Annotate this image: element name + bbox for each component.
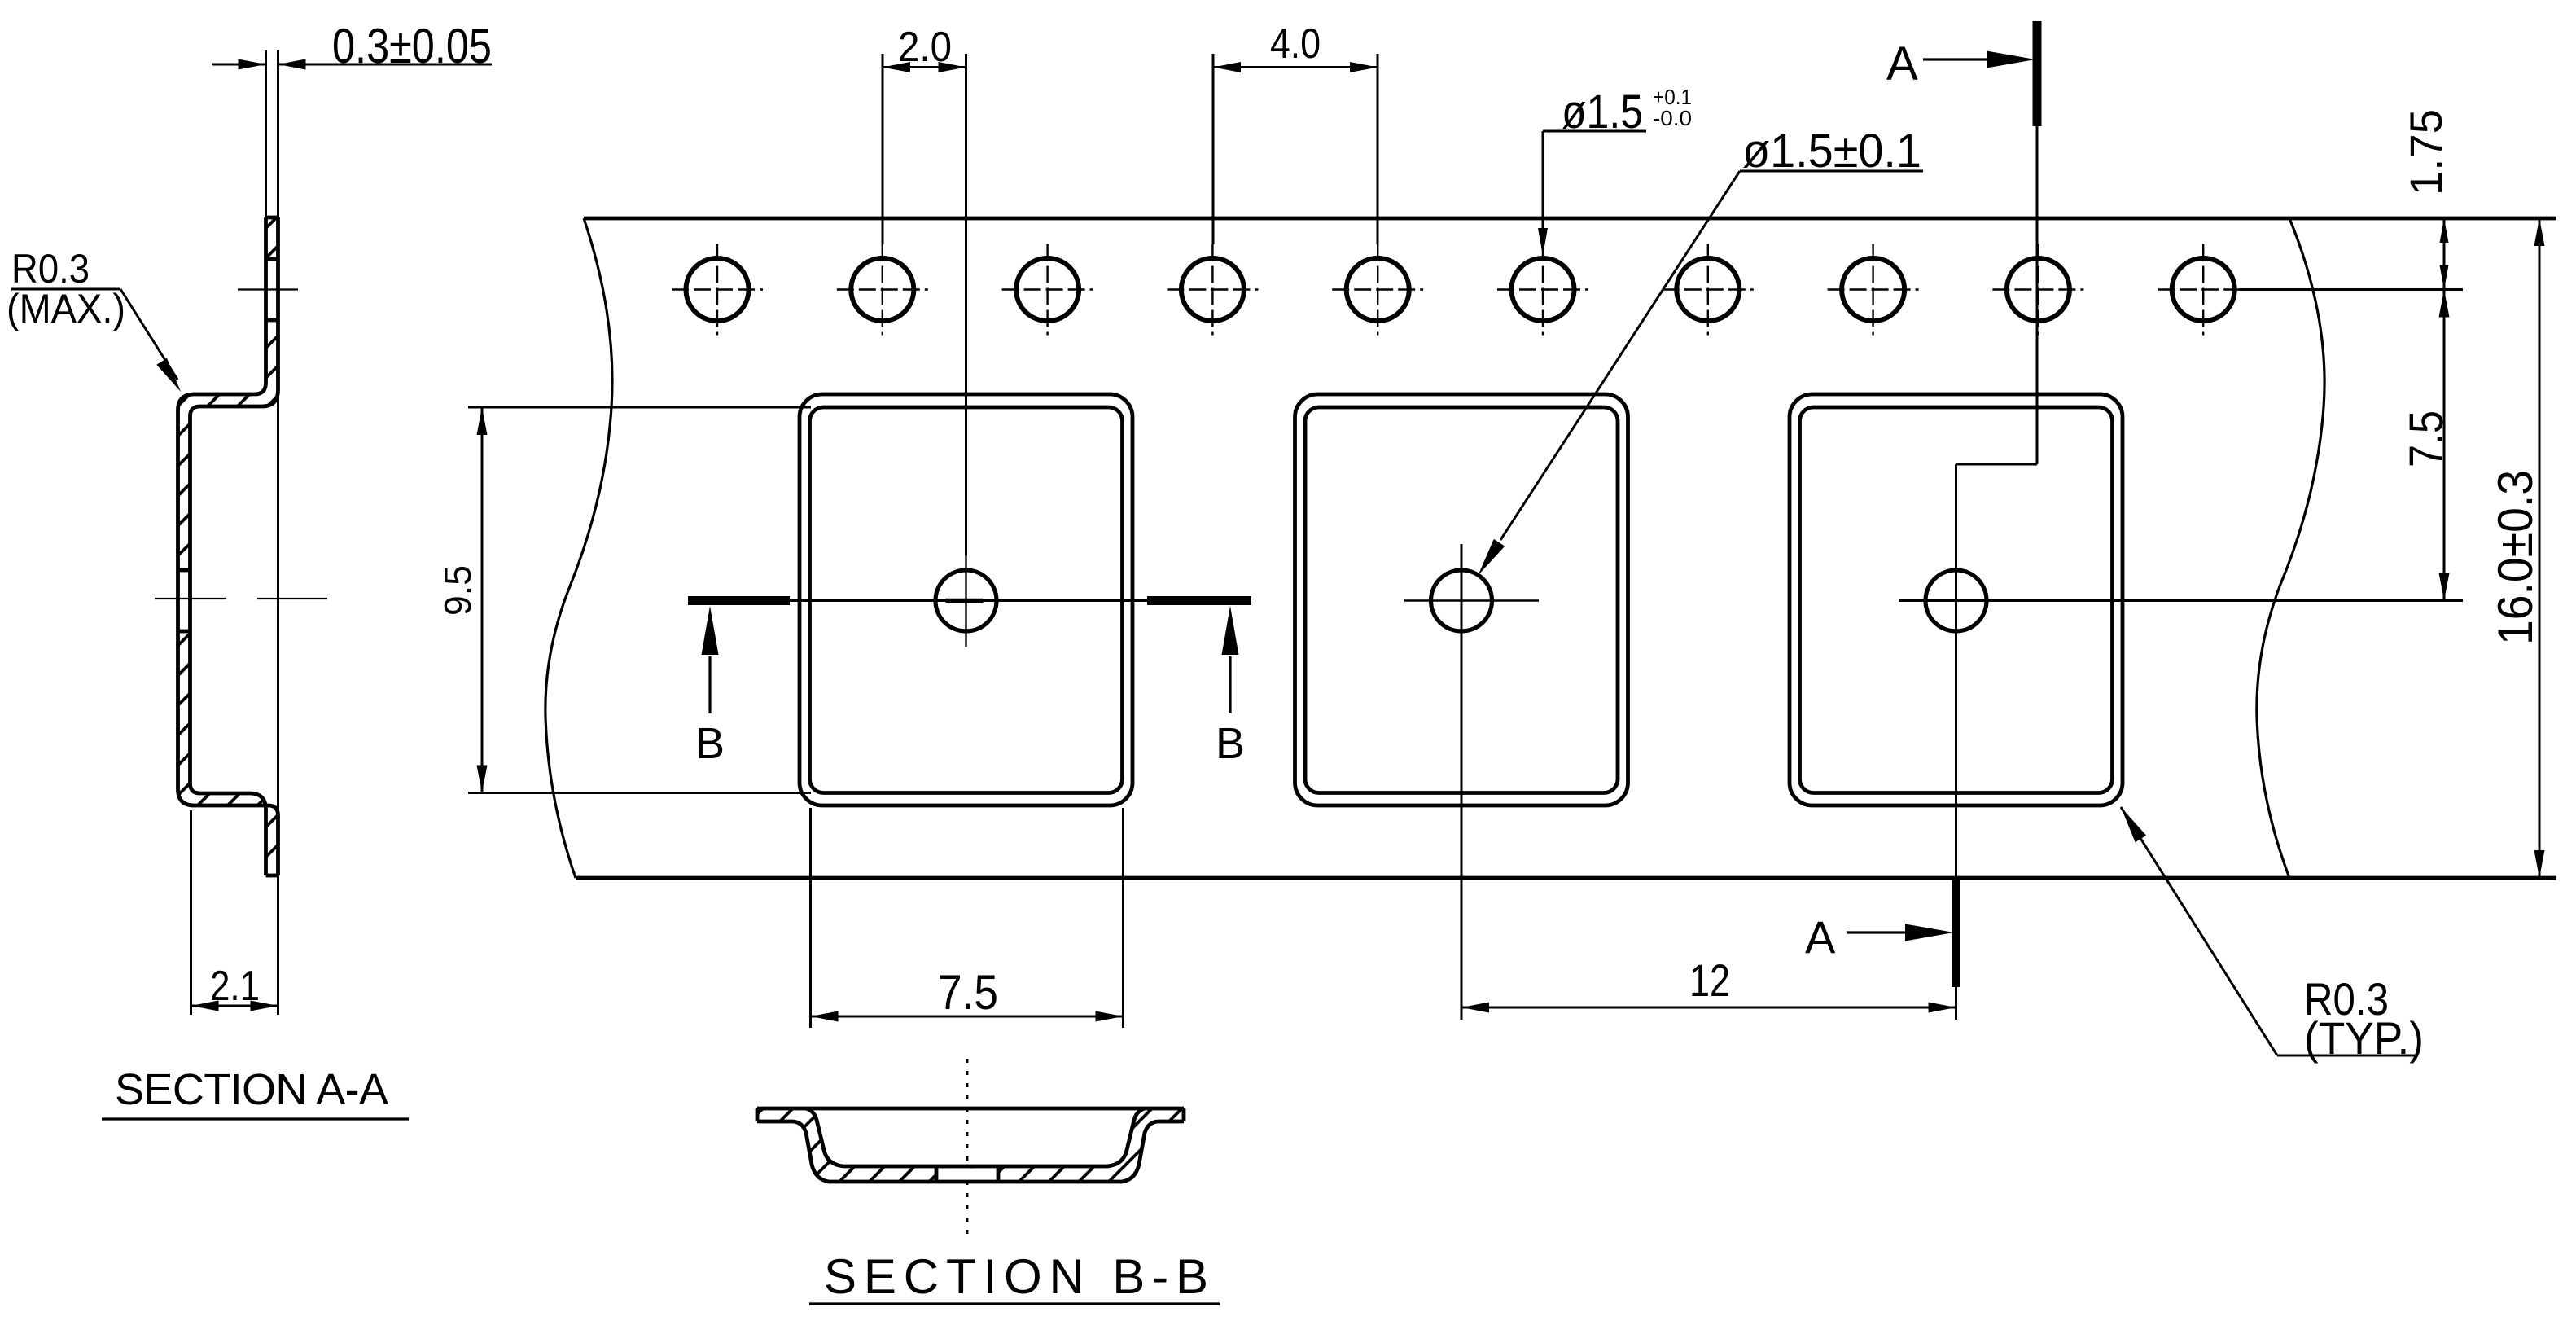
- dim 4.0 extension line right: [1377, 54, 1379, 244]
- dim 4.0 extension line left: [1212, 54, 1215, 244]
- section arrow B left: [708, 656, 711, 713]
- dim 0.3 extension left: [265, 50, 267, 217]
- dim 12 extension left (pocket2 centerline): [1461, 544, 1463, 1020]
- section A-A cut line lower thin: [1955, 464, 1957, 880]
- pocket 3 row line: [1899, 599, 2463, 602]
- sprocket hole 6: [1512, 258, 1575, 321]
- svg-text:16.0±0.3: 16.0±0.3: [2488, 470, 2543, 645]
- section A-A bottom end cap: [266, 874, 278, 878]
- section A-A cut line jog: [1956, 463, 2038, 466]
- section A-A cut line top bold: [2033, 21, 2042, 126]
- section A-A cut line upper thin: [2036, 126, 2039, 464]
- dim 7.5 line: [811, 1016, 1124, 1018]
- label R0.3 TYP leader: [2121, 807, 2277, 1055]
- section arrow A top: [1923, 58, 1987, 60]
- dim 16.0 extension top: [2326, 217, 2556, 220]
- section B-B centerline: [966, 1059, 969, 1235]
- dim 7.5 extension right: [1122, 808, 1124, 1028]
- section A-A top end cap: [266, 216, 278, 220]
- section B-B cut line thin middle: [790, 599, 1147, 602]
- sprocket hole 10: [2172, 258, 2235, 321]
- sprocket hole 2: [851, 258, 913, 321]
- sprocket hole 9: [2007, 258, 2070, 321]
- label R0.3 MAX underline: [11, 288, 120, 291]
- tape right break line: [2257, 218, 2324, 878]
- svg-text:2.1: 2.1: [210, 963, 260, 1010]
- sprocket hole 1: [686, 258, 749, 321]
- label dia1.5pm leader: [1740, 170, 1923, 173]
- dim 12 line: [1461, 1007, 1956, 1009]
- section A-A material hatch: [178, 217, 278, 875]
- pocket 2 hole crosshair: [1404, 599, 1539, 601]
- section B-B inner profile: [806, 1108, 1145, 1166]
- pocket 1 outline: [800, 394, 1132, 805]
- pocket 3 center hole: [1925, 570, 1987, 631]
- dim 2.1 line: [191, 1005, 278, 1007]
- dim 1.75 line: [2443, 218, 2446, 290]
- section A-A tape plane line: [277, 50, 279, 1015]
- dim 7.5 right line: [2443, 290, 2446, 601]
- dim 9.5 line: [481, 407, 484, 793]
- tape left break line: [545, 218, 612, 878]
- svg-text:SECTION B-B: SECTION B-B: [824, 1249, 1208, 1304]
- pocket 2 center hole: [1431, 570, 1492, 631]
- pocket 2 outline: [1295, 394, 1628, 805]
- title SECTION A-A underline: [102, 1117, 409, 1120]
- svg-text:R0.3: R0.3: [11, 246, 90, 292]
- sprocket hole 8: [1842, 258, 1904, 321]
- sprocket hole 7: [1676, 258, 1739, 321]
- label dia1.5 leader: [1543, 130, 1646, 133]
- section B-B outer profile: [757, 1121, 1184, 1182]
- sprocket hole 5: [1347, 258, 1409, 321]
- dim 16.0 line: [2539, 218, 2541, 878]
- dim 9.5 extension top: [468, 406, 811, 409]
- svg-text:(TYP.): (TYP.): [2304, 1012, 2424, 1064]
- svg-text:ø1.5±0.1: ø1.5±0.1: [1742, 125, 1921, 178]
- label R0.3 MAX leader: [120, 289, 177, 380]
- svg-text:1.75: 1.75: [2400, 109, 2451, 195]
- svg-text:0.3±0.05: 0.3±0.05: [332, 19, 492, 73]
- svg-text:(MAX.): (MAX.): [7, 286, 125, 331]
- section B-B left end cap: [756, 1108, 760, 1121]
- section arrow B right: [1229, 656, 1231, 713]
- sprocket hole 3: [1016, 258, 1079, 321]
- svg-text:12: 12: [1689, 954, 1730, 1006]
- section B-B hole edges: [935, 1166, 939, 1182]
- dim 2.1 extension left: [190, 810, 192, 1015]
- sprocket hole 4: [1181, 258, 1244, 321]
- dim 9.5 extension bottom: [468, 792, 811, 794]
- section A-A profile outline: [178, 217, 278, 875]
- section arrow A bottom: [1847, 931, 1907, 933]
- section B-B hole void: [937, 1169, 997, 1181]
- tape bottom edge: [576, 876, 2556, 880]
- svg-text:SECTION A-A: SECTION A-A: [115, 1065, 388, 1114]
- dim 4.0 line: [1213, 66, 1378, 68]
- section A-A pocket hole tick: [155, 598, 226, 599]
- dim 2.0 extension line right (pocket1 centerline): [965, 54, 967, 555]
- sprocket row line right: [2239, 288, 2463, 291]
- section A-A sprocket hole edges: [266, 257, 278, 261]
- title SECTION B-B underline: [809, 1302, 1220, 1305]
- section B-B right end cap: [1182, 1108, 1186, 1121]
- svg-text:B: B: [1216, 719, 1245, 768]
- section B-B material hatch: [757, 1108, 1184, 1182]
- svg-text:-0.0: -0.0: [1653, 106, 1692, 130]
- section B-B cut line bold right: [1147, 596, 1251, 605]
- svg-text:4.0: 4.0: [1270, 20, 1321, 68]
- section B-B cut line bold left: [688, 596, 790, 605]
- dim 2.0 line: [883, 66, 966, 68]
- dim 0.3 line: [212, 64, 266, 66]
- section A-A sprocket center tick: [238, 288, 298, 290]
- svg-text:ø1.5: ø1.5: [1562, 86, 1643, 138]
- pocket 3 outline: [1790, 394, 2123, 805]
- section A-A pocket hole edges: [178, 568, 191, 573]
- svg-text:7.5: 7.5: [2400, 410, 2453, 467]
- dim 2.0 extension line left: [882, 54, 884, 244]
- section A-A pocket hole void: [177, 570, 191, 631]
- section B-B top line: [757, 1107, 1184, 1111]
- section A-A sprocket hole void: [265, 259, 279, 320]
- dim 7.5 extension left: [809, 808, 812, 1028]
- svg-text:2.0: 2.0: [898, 24, 952, 71]
- section A-A cut line bottom bold: [1952, 880, 1960, 987]
- svg-text:9.5: 9.5: [436, 565, 479, 616]
- svg-text:B: B: [695, 719, 725, 768]
- svg-text:7.5: 7.5: [938, 965, 998, 1020]
- svg-text:A: A: [1805, 911, 1836, 963]
- pocket 1 center hole: [935, 570, 997, 631]
- svg-text:A: A: [1886, 37, 1918, 90]
- tape top edge: [584, 217, 2556, 221]
- section A-A cut line bottom ext: [1955, 987, 1957, 1020]
